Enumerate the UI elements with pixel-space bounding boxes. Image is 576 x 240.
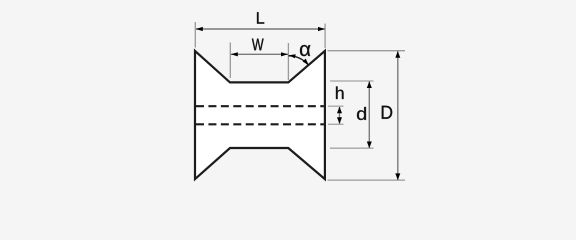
extension tick h top: [328, 105, 344, 107]
angle arc alpha: [288, 56, 308, 65]
extension line L right: [324, 24, 326, 49]
label L: [257, 12, 264, 23]
label W: [252, 39, 264, 51]
label alpha: [300, 45, 310, 56]
extension line D top: [328, 50, 406, 52]
dimension line d: [368, 81, 370, 148]
arrowhead alpha at extension line: [289, 54, 296, 58]
arrowhead D down: [395, 173, 400, 180]
extension line d top: [330, 80, 374, 82]
label h: [336, 87, 344, 100]
dimension line h: [339, 107, 341, 124]
bore hidden line top: [196, 105, 324, 107]
extension line W right: [287, 43, 289, 80]
extension line L left: [194, 22, 196, 48]
extension tick h bottom: [328, 123, 344, 125]
extension line W left: [229, 43, 231, 79]
dimension line D: [397, 51, 399, 180]
pulley body outline: [195, 51, 325, 179]
arrowhead L right: [318, 27, 325, 31]
label d: [357, 107, 366, 120]
arrowhead h up: [337, 107, 342, 114]
arrowhead D up: [395, 51, 400, 58]
label D: [382, 106, 392, 119]
arrowhead d up: [367, 81, 372, 88]
dimension line L: [196, 28, 325, 30]
arrowhead d down: [367, 142, 372, 149]
arrowhead W left: [231, 52, 238, 56]
extension line d bottom: [330, 147, 374, 149]
dimension line W: [231, 53, 288, 55]
extension line D bottom: [328, 179, 406, 181]
arrowhead alpha at slope: [303, 59, 309, 66]
arrowhead L left: [196, 27, 203, 31]
arrowhead W right: [281, 52, 288, 56]
bore hidden line bottom: [196, 123, 324, 125]
arrowhead h down: [337, 117, 342, 124]
